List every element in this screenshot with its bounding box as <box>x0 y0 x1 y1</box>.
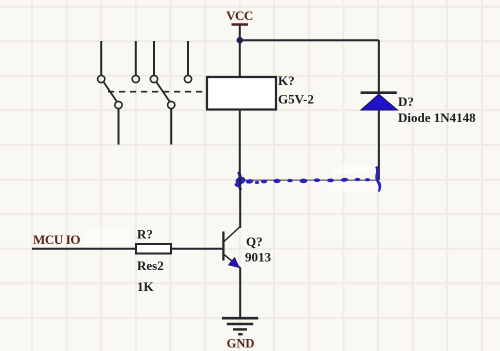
svg-text:R?: R? <box>137 227 153 242</box>
wire emitter to ground <box>239 268 241 318</box>
svg-text:VCC: VCC <box>226 8 253 23</box>
relay coil K? G5V-2 <box>207 40 276 180</box>
svg-text:GND: GND <box>227 337 255 351</box>
svg-text:Res2: Res2 <box>137 258 164 273</box>
node junction coil/diode/collector (blue annotated blob) <box>234 172 246 191</box>
wire resistor to transistor base <box>171 248 222 250</box>
linkage dashed line to coil <box>108 91 206 93</box>
transistor Q? 9013 (NPN) <box>223 227 240 268</box>
resistor R? Res2 1K <box>136 244 171 254</box>
svg-text:1K: 1K <box>137 279 155 294</box>
svg-text:Q?: Q? <box>246 234 263 249</box>
wire MCU IO to resistor <box>32 248 136 250</box>
svg-text:D?: D? <box>398 94 414 109</box>
label R? Res2 1K <box>137 227 164 295</box>
wire relay coil bottom to diode (horizontal, with blue annotation dots) <box>240 178 379 184</box>
wire VCC to diode (top horizontal) <box>240 39 379 41</box>
wire collector to junction <box>239 180 241 228</box>
net label MCU IO <box>33 232 80 247</box>
svg-text:Diode 1N4148: Diode 1N4148 <box>398 110 476 125</box>
wire diode cathode lead (vertical) <box>378 40 380 92</box>
svg-text:K?: K? <box>278 73 295 88</box>
ground <box>222 318 258 350</box>
switch contact SW2 (relay contact) <box>150 41 191 145</box>
power symbol VCC <box>226 8 253 40</box>
node diode anode corner (blue annotated squiggle) <box>375 166 381 192</box>
switch contact SW1 (relay contact) <box>98 41 140 145</box>
svg-text:9013: 9013 <box>245 250 272 265</box>
label K? G5V-2 <box>278 73 314 107</box>
value label Diode 1N4148 <box>398 94 476 125</box>
label Q? 9013 <box>245 234 272 265</box>
svg-text:G5V-2: G5V-2 <box>278 92 314 107</box>
node VCC junction <box>237 37 243 43</box>
wire diode anode lead (vertical) <box>378 110 380 180</box>
svg-text:MCU IO: MCU IO <box>33 232 80 247</box>
diode D? 1N4148 <box>361 93 398 110</box>
